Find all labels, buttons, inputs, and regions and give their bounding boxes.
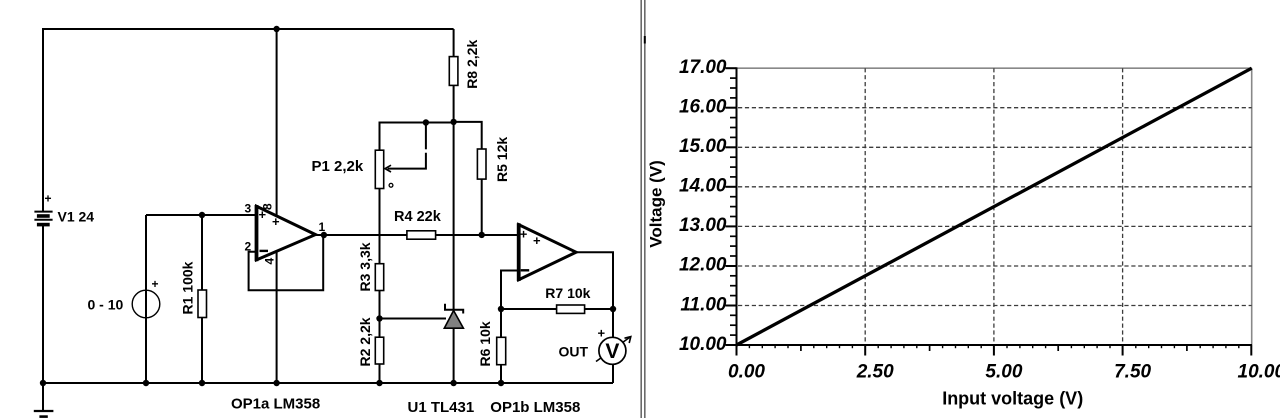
wire left rail upper (V1 top) bbox=[42, 28, 44, 212]
node dot TL431 ref junction bbox=[376, 315, 382, 321]
node dot rail V1 bbox=[40, 380, 46, 386]
wire OP1a feedback loop pin2 bbox=[249, 235, 324, 290]
node dot P1 wiper top bbox=[423, 119, 429, 125]
svg-text:7.50: 7.50 bbox=[1114, 362, 1151, 383]
wire bottom ground rail bbox=[42, 382, 613, 384]
chart y minor ticks bbox=[730, 78, 737, 335]
chart y axis bbox=[736, 67, 738, 346]
resistor R2 bbox=[375, 337, 383, 364]
potentiometer P1 body bbox=[375, 150, 383, 188]
svg-text:R4 22k: R4 22k bbox=[394, 209, 442, 225]
svg-text:5.00: 5.00 bbox=[985, 362, 1022, 383]
svg-text:12.00: 12.00 bbox=[679, 255, 727, 276]
node dot OP1b inverting junction bbox=[498, 306, 504, 312]
svg-text:17.00: 17.00 bbox=[679, 57, 727, 78]
svg-text:OP1b LM358: OP1b LM358 bbox=[490, 399, 580, 416]
wire OP1a output to OP1b plus input bbox=[316, 234, 519, 236]
node dot op-amp pin8 on top rail bbox=[273, 26, 279, 32]
svg-text:3: 3 bbox=[245, 202, 252, 216]
OP1b minus input mark bbox=[521, 269, 530, 271]
divider right line bbox=[644, 0, 646, 418]
wire R3 to R2 bbox=[379, 291, 381, 338]
resistor R5 bbox=[477, 149, 486, 179]
svg-text:14.00: 14.00 bbox=[679, 176, 727, 197]
chart dashed horizontal gridlines bbox=[738, 108, 1252, 306]
svg-text:10.00: 10.00 bbox=[1238, 362, 1280, 383]
node dot rail source bbox=[143, 380, 149, 386]
voltmeter circle bbox=[599, 337, 626, 364]
svg-text:2.50: 2.50 bbox=[856, 362, 894, 383]
chart x axis bbox=[736, 344, 1253, 346]
op-amp OP1b bbox=[519, 223, 576, 281]
chart right border bbox=[1251, 68, 1253, 345]
svg-text:13.00: 13.00 bbox=[679, 215, 727, 236]
svg-text:P1 2,2k: P1 2,2k bbox=[312, 158, 364, 175]
wire OP1a pin8 supply drop bbox=[276, 29, 278, 216]
svg-text:15.00: 15.00 bbox=[679, 136, 727, 157]
OP1a minus input mark bbox=[260, 250, 269, 252]
voltmeter arrowhead bbox=[625, 337, 631, 343]
op-amp OP1a bbox=[257, 205, 316, 261]
wire OP1a pin4 down to ground rail bbox=[276, 252, 278, 383]
chart x half ticks bbox=[801, 345, 1187, 351]
source VG1 0-10 circle bbox=[132, 290, 160, 318]
svg-text:+: + bbox=[533, 233, 541, 248]
svg-text:4: 4 bbox=[263, 258, 277, 265]
chart data line bbox=[737, 68, 1252, 345]
P1 wiper arrowhead bbox=[385, 165, 391, 172]
divider left line bbox=[640, 0, 642, 418]
divider tick bbox=[644, 36, 646, 44]
U1 TL431 body triangle bbox=[444, 311, 463, 329]
chart dashed vertical gridlines bbox=[865, 68, 1122, 344]
wire R7 node row bbox=[501, 308, 613, 310]
voltmeter needle bbox=[596, 338, 630, 362]
svg-text:2: 2 bbox=[245, 240, 252, 254]
node dot R1 top bbox=[199, 212, 205, 218]
wire TL431 anode down bbox=[453, 328, 455, 383]
chart top border bbox=[737, 67, 1252, 69]
node dot rail R2 bbox=[376, 380, 382, 386]
wire P1 wiper upper segment bbox=[425, 123, 427, 150]
chart x tiny ticks bbox=[749, 345, 1238, 348]
svg-text:V: V bbox=[605, 340, 619, 363]
chart y tick labels bbox=[679, 57, 727, 355]
resistor R1 bbox=[198, 290, 207, 318]
svg-text:10.00: 10.00 bbox=[679, 334, 727, 355]
ground symbol bbox=[34, 411, 54, 417]
svg-text:Voltage (V): Voltage (V) bbox=[647, 160, 666, 248]
wire ground stem bbox=[42, 383, 44, 411]
svg-text:Input voltage (V): Input voltage (V) bbox=[942, 388, 1083, 408]
wire TL431 ref link bbox=[380, 318, 447, 320]
resistor R6 bbox=[497, 337, 506, 364]
svg-text:11.00: 11.00 bbox=[680, 294, 727, 315]
svg-text:U1 TL431: U1 TL431 bbox=[408, 399, 475, 416]
wire R5 bottom drop bbox=[481, 179, 483, 235]
node dot R8 bottom junction bbox=[450, 119, 456, 125]
wire P1 wiper lower segment and horizontal bbox=[388, 153, 426, 169]
chart x tick labels bbox=[728, 362, 1280, 383]
svg-text:R2 2,2k: R2 2,2k bbox=[357, 317, 373, 366]
svg-text:OUT: OUT bbox=[559, 344, 589, 360]
wire P1 top link bbox=[380, 123, 454, 151]
svg-text:+: + bbox=[520, 226, 528, 241]
node dot OP1a output bbox=[321, 232, 327, 238]
svg-text:R8 2,2k: R8 2,2k bbox=[464, 40, 480, 89]
svg-text:OP1a LM358: OP1a LM358 bbox=[231, 395, 320, 412]
node dot output node bbox=[610, 306, 616, 312]
wire left rail lower (V1 bottom to ground rail) bbox=[42, 226, 44, 385]
node dot rail R1 bbox=[199, 380, 205, 386]
chart x major ticks bbox=[737, 345, 1252, 356]
resistor R4 bbox=[407, 231, 436, 239]
wire R6 branch bbox=[500, 309, 502, 383]
wire source branch vertical bbox=[145, 215, 147, 383]
wire R8 branch vertical bbox=[453, 29, 455, 310]
resistor R3 bbox=[375, 264, 383, 291]
P1 wiper small circle bbox=[389, 183, 393, 187]
wire OP1b output drop bbox=[576, 252, 613, 383]
wire source top to OP1a pin3 bbox=[146, 214, 257, 216]
svg-text:V1 24: V1 24 bbox=[58, 209, 95, 225]
svg-text:R1 100k: R1 100k bbox=[180, 261, 196, 314]
svg-text:R3 3,3k: R3 3,3k bbox=[357, 242, 373, 291]
svg-text:+: + bbox=[152, 277, 159, 291]
node dot rail OP1a pin4 bbox=[273, 380, 279, 386]
svg-text:0.00: 0.00 bbox=[728, 362, 765, 383]
svg-text:+: + bbox=[272, 214, 280, 229]
wire R8 junction to R5 bbox=[454, 122, 482, 149]
wire R1 branch bbox=[201, 215, 203, 383]
svg-text:R7 10k: R7 10k bbox=[545, 285, 590, 301]
node dot rail R6 bbox=[498, 380, 504, 386]
resistor R8 bbox=[449, 57, 458, 86]
svg-text:0 - 10: 0 - 10 bbox=[88, 297, 124, 313]
wire P1 bottom to R3 bbox=[379, 189, 381, 264]
wire top rail bbox=[43, 28, 454, 30]
svg-text:+: + bbox=[598, 326, 606, 341]
wire OP1b inverting stub bbox=[501, 271, 519, 310]
svg-text:16.00: 16.00 bbox=[679, 97, 727, 118]
battery V1 bbox=[34, 212, 52, 225]
svg-text:R5 12k: R5 12k bbox=[494, 137, 510, 182]
svg-text:+: + bbox=[259, 207, 267, 222]
node dot rail TL431 bbox=[450, 380, 456, 386]
shunt regulator U1 TL431 cathode bar bbox=[445, 304, 463, 314]
wire R2 bottom bbox=[379, 364, 381, 383]
resistor R7 bbox=[557, 305, 585, 313]
node dot R5 bottom junction bbox=[479, 232, 485, 238]
chart y major ticks bbox=[726, 68, 737, 345]
svg-text:R6 10k: R6 10k bbox=[477, 321, 493, 366]
svg-text:+: + bbox=[45, 192, 52, 206]
